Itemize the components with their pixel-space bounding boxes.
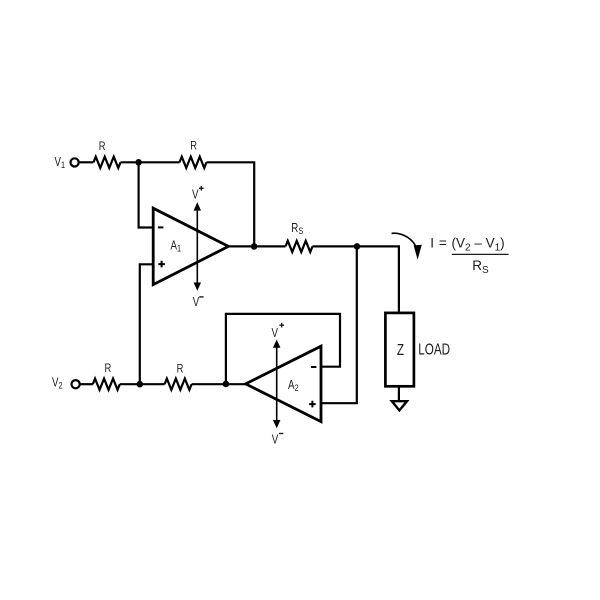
svg-text:V1: V1 xyxy=(55,156,66,170)
svg-text:LOAD: LOAD xyxy=(418,341,450,358)
terminal V1 xyxy=(71,158,79,166)
wire feedback R down to A1 output node xyxy=(207,162,255,246)
op-amp A1 plus pin symbol xyxy=(158,261,165,268)
resistor R (node B to A2) xyxy=(165,379,192,390)
wire RS to corner and down to load xyxy=(313,246,399,313)
terminal V2 xyxy=(72,380,80,388)
resistor R (V1 input) xyxy=(94,157,121,168)
junction node C (A2 output / feedback / R) xyxy=(223,381,230,388)
supply arrow V+/V- through A1 xyxy=(194,202,202,290)
svg-text:I=: I= xyxy=(430,235,447,250)
wire V2 terminal to R xyxy=(80,383,93,385)
equation I = (V2 - V1)/RS xyxy=(430,235,508,276)
junction dot A1 output / feedback xyxy=(251,243,258,250)
junction node B (V2 R / A1 + input) xyxy=(137,381,144,388)
wire between V2 row resistors xyxy=(120,383,165,385)
supply arrow V+/V- through A2 xyxy=(273,340,281,429)
wire load box to ground xyxy=(398,386,400,401)
wire A2 output node up/over to A2 inverting input xyxy=(226,314,340,384)
resistor R (V2 input) xyxy=(93,379,120,390)
wire A1 noninverting input down to node B xyxy=(140,264,153,384)
V+ label of A1 xyxy=(192,186,204,202)
op-amp A2 plus pin symbol xyxy=(309,401,316,408)
svg-text:V2: V2 xyxy=(52,376,63,390)
junction node A (V1 R / feedback R) xyxy=(135,159,142,166)
wire R to node A xyxy=(121,161,180,163)
svg-text:V: V xyxy=(272,434,279,447)
svg-text:R: R xyxy=(190,140,197,153)
op-amp A2 xyxy=(246,346,321,421)
resistor RS xyxy=(286,241,313,252)
svg-text:R: R xyxy=(99,140,106,153)
V- label of A2 xyxy=(272,434,284,447)
svg-text:V: V xyxy=(193,296,200,309)
op-amp A1 xyxy=(153,208,228,284)
svg-text:R: R xyxy=(177,362,184,375)
svg-text:Z: Z xyxy=(397,342,404,359)
wire R to A2 output apex xyxy=(192,383,246,385)
svg-text:RS: RS xyxy=(291,222,303,236)
op-amp A1 minus pin symbol xyxy=(158,226,164,228)
wire A1 output row to load corner xyxy=(228,245,285,247)
op-amp A2 minus pin symbol xyxy=(311,366,317,368)
svg-text:V: V xyxy=(272,327,279,340)
current direction curved arrow xyxy=(392,233,422,259)
resistor R (A1 feedback) xyxy=(180,157,207,168)
wire node A down to A1 inverting input xyxy=(139,162,154,227)
junction dot RS / A2 sense xyxy=(354,243,361,250)
svg-text:R: R xyxy=(105,362,112,375)
svg-text:V: V xyxy=(192,189,199,202)
V- label of A1 xyxy=(193,296,204,309)
V+ label of A2 xyxy=(272,323,284,340)
load impedance Z box xyxy=(385,313,414,386)
ground xyxy=(392,401,407,410)
wire V1 terminal to R xyxy=(79,161,94,163)
wire A2 noninverting input to RS sense node xyxy=(321,247,357,404)
